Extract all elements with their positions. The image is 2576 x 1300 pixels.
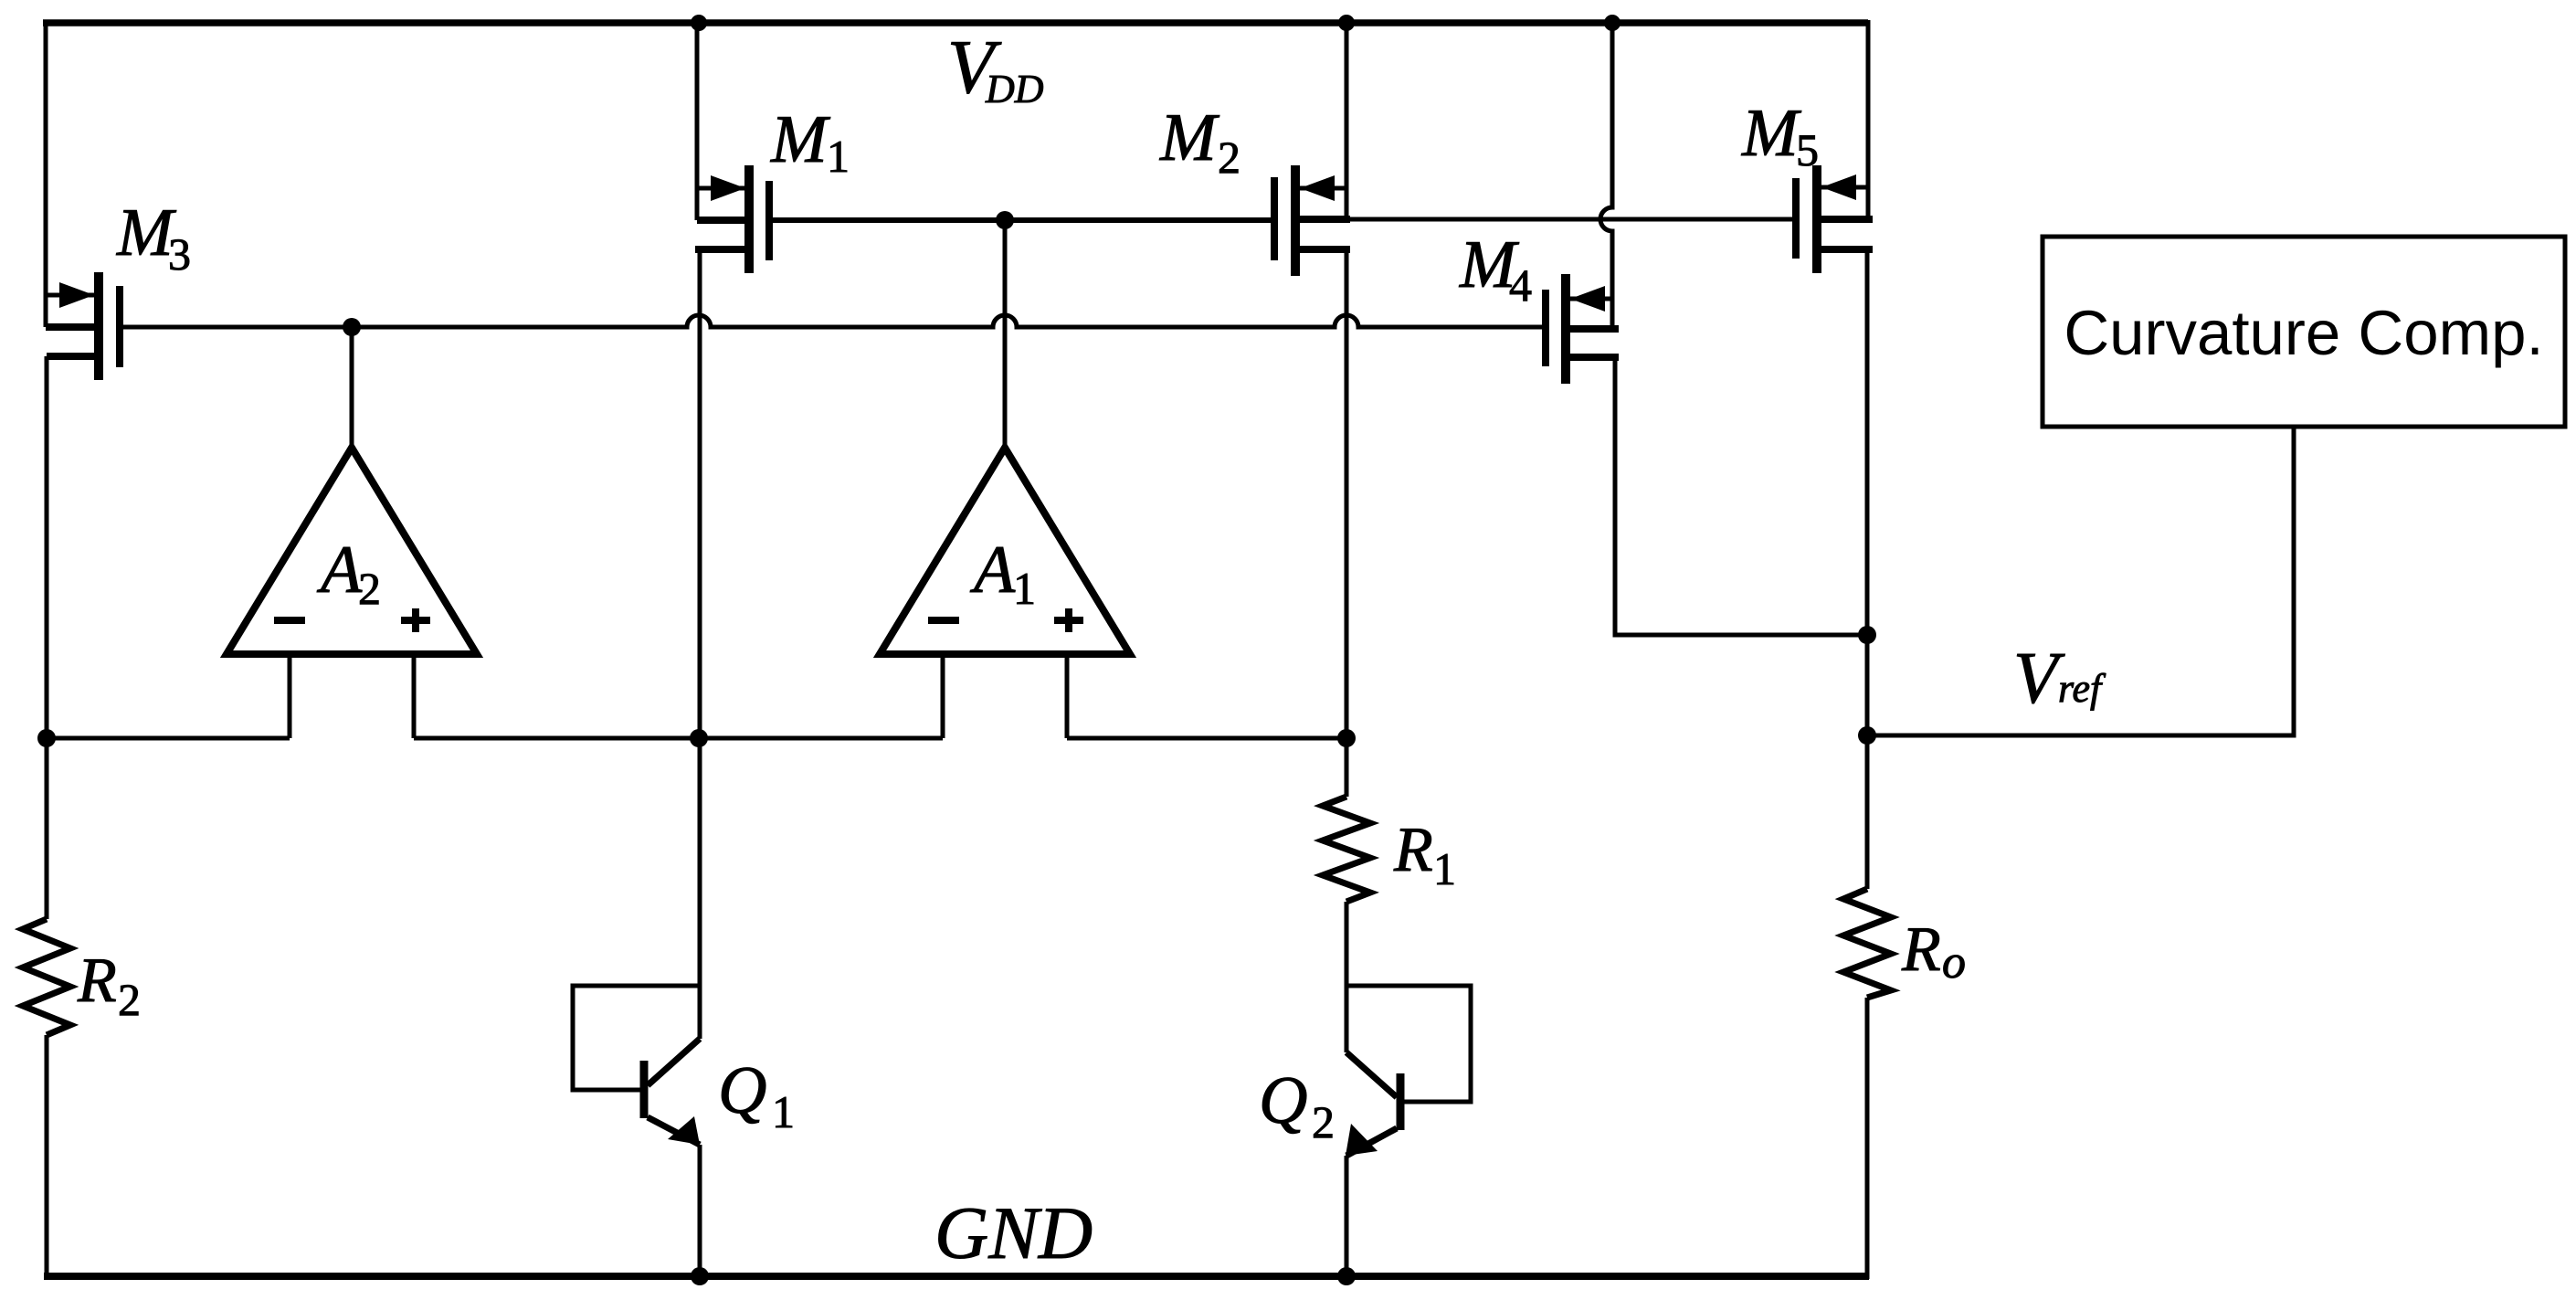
wire: R2 node to R2 [45,738,49,919]
label M3 [116,196,191,280]
svg-text:5: 5 [1796,124,1819,175]
svg-text:Q: Q [718,1053,766,1128]
wire: A1 output [1003,220,1008,448]
svg-text:1: 1 [1013,563,1036,614]
transistor M4 [1546,274,1619,384]
wire: A2 non-inverting input stub [412,654,417,738]
wire: bus R2 node to A2 minus [47,736,290,741]
wire: R2 to GND rail [45,1035,49,1279]
svg-text:R: R [1901,914,1941,985]
wire: M5 gate line [1350,217,1792,222]
svg-text:1: 1 [772,1086,795,1137]
svg-text:2: 2 [1218,132,1240,183]
node dot A2 out [343,318,361,336]
svg-text:A: A [316,533,363,608]
label Q2 [1259,1063,1335,1147]
GND rail [44,1273,1869,1280]
svg-text:o: o [1942,936,1966,988]
block: Curvature Comp. [2043,237,2565,427]
wire: M4 source from VDD with hop over M5 gate line [1600,20,1612,329]
svg-text:4: 4 [1509,259,1532,311]
label Q1 [718,1053,795,1137]
label A2 [316,533,381,614]
resistor R2 [23,919,70,1035]
wire: A1 non-inverting input stub [1065,654,1070,738]
label R2 [77,946,141,1025]
op-amp A2 [227,448,477,654]
svg-text:R: R [77,946,117,1016]
wire: M3 drain down to R2 node [45,356,49,738]
svg-text:M: M [770,102,831,177]
svg-text:2: 2 [118,974,141,1025]
wire: A2 output [350,327,354,448]
node dot Vref [1858,726,1876,745]
svg-text:1: 1 [1433,843,1456,894]
label M5 [1741,96,1819,175]
wire: bus A1 plus to R1 node [1067,736,1346,741]
node dot R2 top [37,729,56,747]
label Ro [1901,914,1966,988]
node dot M4 drain / M5 drain [1858,626,1876,644]
node dot A1 out [996,211,1014,229]
wire: left border (M3 source from VDD) [44,20,48,327]
transistor Q2 [1346,986,1471,1278]
wire: A1 inverting input stub [941,654,945,738]
svg-text:R: R [1393,815,1433,885]
svg-text:M: M [1159,100,1220,175]
wire: Vref to curvature comp block [1867,427,2294,735]
label M1 [770,102,850,182]
label VDD [947,25,1044,111]
node dot R1 top [1337,729,1356,747]
wire: M5 drain down through Vref to Ro [1865,249,1870,889]
wire: R1 to Q2 [1345,902,1349,1052]
wire: M4 drain to Vref node [1615,357,1867,635]
VDD rail [43,19,1868,26]
wire: M2 drain down to R1 [1345,249,1349,797]
svg-text:2: 2 [358,563,381,614]
label A1 [969,533,1036,614]
svg-text:1: 1 [827,131,850,182]
transistor M2 [1274,20,1350,276]
svg-text:GND: GND [934,1191,1093,1274]
wire: Ro to GND rail [1865,998,1870,1279]
svg-text:Q: Q [1259,1063,1307,1138]
resistor R1 [1323,797,1370,902]
svg-text:ref: ref [2058,666,2106,711]
svg-text:M: M [1741,96,1802,171]
node dot Q2 emitter GND [1337,1267,1356,1285]
wire: M3/M4 gate line with hops [123,315,1542,327]
svg-text:Curvature Comp.: Curvature Comp. [2064,298,2543,368]
transistor Q1 [573,986,700,1278]
node dot Q1 emitter GND [691,1267,709,1285]
node dot VDD/M4 [1604,15,1621,31]
transistor M5 [1796,20,1873,273]
svg-text:DD: DD [985,67,1044,111]
wire: A2 inverting input stub [288,654,292,738]
node dot Q1 collector net [690,729,708,747]
wire: bus A2 plus to A1 minus [414,736,943,741]
wire: M1-M2 gate line (A1 output net) [773,217,1271,223]
op-amp A1 [880,448,1130,654]
wire: M1 drain down to Q1 [698,249,702,1039]
svg-text:A: A [969,533,1016,608]
svg-text:3: 3 [168,228,191,280]
transistor M1 [695,20,769,273]
label M4 [1459,227,1532,311]
label Vref [2013,639,2106,719]
svg-text:2: 2 [1312,1096,1335,1147]
transistor M3 [46,272,120,380]
label M2 [1159,100,1240,183]
resistor Ro [1843,889,1891,998]
node dot VDD/M1 [691,15,707,31]
node dot VDD/M2 [1338,15,1355,31]
label R1 [1393,815,1456,894]
